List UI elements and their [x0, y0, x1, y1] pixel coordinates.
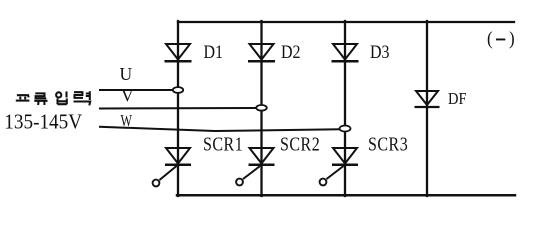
- diode D3: [332, 44, 359, 61]
- char 입: [56, 92, 61, 97]
- char 류: [35, 93, 46, 98]
- node U (terminal on branch 1): [173, 87, 183, 93]
- char 교: [17, 95, 29, 97]
- svg-text:135-145V: 135-145V: [4, 111, 82, 134]
- node V (terminal on branch 2): [256, 105, 267, 111]
- svg-text:SCR1: SCR1: [203, 133, 243, 155]
- thyristor SCR1: [153, 148, 191, 186]
- svg-text:SCR2: SCR2: [280, 133, 320, 155]
- svg-text:D3: D3: [370, 41, 390, 63]
- svg-text:W: W: [121, 112, 133, 130]
- svg-text:DF: DF: [448, 90, 467, 108]
- node W (terminal on branch 3): [340, 126, 351, 132]
- svg-text:): ): [509, 27, 515, 49]
- wire branch DF vertical: [426, 21, 428, 196]
- label 교류입력 (AC input, drawn as strokes): [16, 91, 90, 105]
- wire branch 1 vertical: [177, 21, 179, 196]
- wire W input line: [100, 127, 340, 131]
- thyristor SCR2: [236, 148, 274, 185]
- diode D2: [248, 44, 275, 61]
- wire branch 3 vertical: [344, 21, 346, 196]
- svg-text:(: (: [487, 27, 493, 49]
- svg-text:V: V: [121, 86, 134, 106]
- wire V input line: [100, 107, 257, 110]
- thyristor SCR3: [320, 148, 358, 185]
- char 력: [74, 92, 83, 98]
- wire top bus (-): [178, 21, 514, 23]
- diode D1: [165, 44, 192, 61]
- wire branch 2 vertical: [260, 21, 262, 196]
- svg-text:D1: D1: [204, 41, 224, 63]
- wire U input line: [100, 89, 174, 91]
- svg-text:D2: D2: [281, 41, 301, 63]
- diode DF: [415, 91, 440, 107]
- wire bottom bus: [177, 194, 515, 197]
- svg-text:SCR3: SCR3: [368, 133, 408, 155]
- svg-text:U: U: [120, 64, 133, 84]
